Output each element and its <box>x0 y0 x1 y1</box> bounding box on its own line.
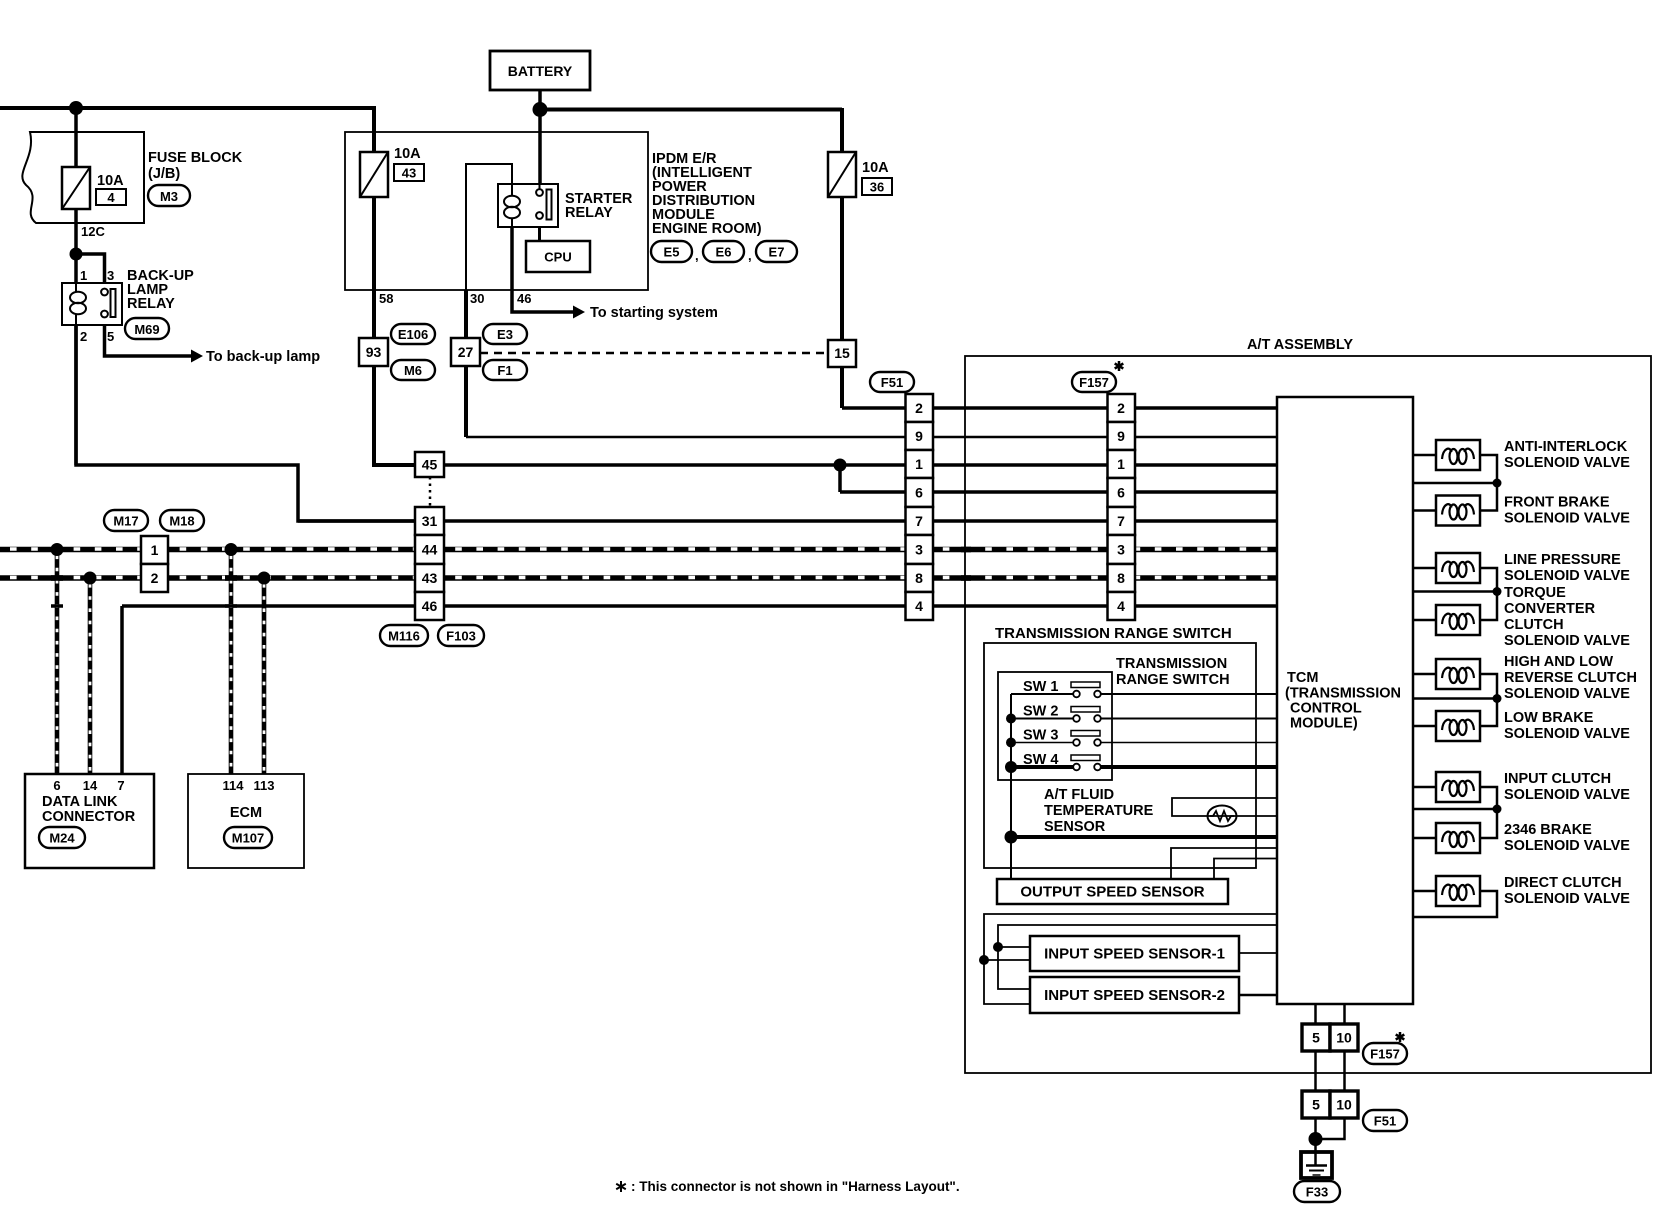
solenoid 3 line pressure <box>1436 553 1480 583</box>
svg-text:SENSOR: SENSOR <box>1044 819 1106 835</box>
svg-text:7: 7 <box>117 778 124 793</box>
svg-text:(J/B): (J/B) <box>148 166 180 182</box>
svg-text:10A: 10A <box>862 160 889 176</box>
wire row 4 drop to DLC pin 7 <box>120 606 124 774</box>
svg-text:8: 8 <box>1117 570 1125 586</box>
connector E6 <box>703 241 744 262</box>
svg-text:3: 3 <box>915 542 923 558</box>
SW4 switch <box>1071 755 1100 761</box>
value box 43 <box>394 164 424 181</box>
fuse 36 <box>828 152 856 197</box>
A/T ASSEMBLY outer box <box>965 356 1651 1073</box>
wire row 4 horizontal <box>122 604 1277 608</box>
connector cells 1/2 at M17 M18 <box>141 536 168 564</box>
connector 5/10 F157 bottom <box>1302 1024 1330 1051</box>
svg-text:10A: 10A <box>394 146 421 162</box>
F157 connector strip <box>1108 394 1136 422</box>
svg-text:TEMPERATURE: TEMPERATURE <box>1044 803 1154 819</box>
svg-text:SOLENOID VALVE: SOLENOID VALVE <box>1504 568 1630 584</box>
svg-text:7: 7 <box>915 513 923 529</box>
svg-text:TRANSMISSION RANGE SWITCH: TRANSMISSION RANGE SWITCH <box>995 625 1232 642</box>
SW1 switch <box>1071 682 1100 688</box>
wire backup relay pin5 to back-up lamp arrow <box>105 317 192 356</box>
connector box 93 <box>359 338 388 366</box>
svg-text:CPU: CPU <box>544 250 571 265</box>
wire IPDM pin30 via connector 27 to row 9 <box>466 164 512 292</box>
wire IPDM pin46 to starting system <box>512 227 573 312</box>
wire F157 to F51 pin5 <box>1314 1051 1317 1091</box>
svg-text:58: 58 <box>379 291 393 306</box>
node ISS supply B <box>993 942 1003 952</box>
solenoid 1 anti-interlock <box>1436 440 1480 470</box>
svg-text:2346 BRAKE: 2346 BRAKE <box>1504 822 1592 838</box>
connector M3 <box>148 185 190 206</box>
svg-text:CONVERTER: CONVERTER <box>1504 601 1596 617</box>
connector E7 <box>756 241 797 262</box>
ECM box M107 <box>188 774 304 868</box>
svg-text:44: 44 <box>422 542 438 558</box>
svg-text:5: 5 <box>1312 1097 1320 1113</box>
svg-text:31: 31 <box>422 513 438 529</box>
wire sensor ground common thick <box>1011 835 1277 839</box>
svg-text:A/T ASSEMBLY: A/T ASSEMBLY <box>1247 337 1353 353</box>
DLC box M24 <box>25 774 154 868</box>
SW3 switch <box>1071 731 1100 737</box>
dashed line connector 27 to connector 15 <box>480 352 828 355</box>
svg-text:F157: F157 <box>1079 375 1109 390</box>
svg-text:SW 4: SW 4 <box>1023 752 1058 768</box>
wire TCM pin5 down <box>1314 1004 1317 1024</box>
F51 connector strip <box>906 394 934 422</box>
node fuse4 output <box>70 248 83 261</box>
node ground join <box>1309 1132 1323 1146</box>
node CAN H DLC <box>84 572 97 585</box>
svg-text:F157: F157 <box>1370 1047 1400 1062</box>
wire solenoid 6 left <box>1413 725 1436 728</box>
connector box 31 <box>415 507 444 535</box>
svg-text:5: 5 <box>1312 1030 1320 1046</box>
connector E106 <box>391 324 435 344</box>
svg-text:ANTI-INTERLOCK: ANTI-INTERLOCK <box>1504 439 1628 455</box>
svg-text:M116: M116 <box>388 629 420 644</box>
arrowhead to starting system <box>573 306 585 319</box>
wire SW1 left <box>1011 693 1073 695</box>
output speed sensor box <box>997 879 1228 904</box>
wire input speed sensors supply A <box>984 914 1277 1004</box>
node ISS supply A <box>979 955 989 965</box>
svg-text:M17: M17 <box>113 514 138 529</box>
solenoid 5 high and low reverse clutch <box>1436 659 1480 689</box>
wire F157 to F51 pin10 <box>1343 1051 1346 1091</box>
svg-text:SW 1: SW 1 <box>1023 679 1058 695</box>
svg-text:M24: M24 <box>49 831 75 846</box>
svg-text:E7: E7 <box>769 245 785 260</box>
svg-text:REVERSE CLUTCH: REVERSE CLUTCH <box>1504 670 1637 686</box>
svg-text:CONTROL: CONTROL <box>1290 701 1362 717</box>
TCM box <box>1277 397 1413 1004</box>
node SW2 common <box>1006 714 1016 724</box>
wire SW2 left <box>1011 718 1073 720</box>
svg-text:: This connector is not shown: : This connector is not shown in "Harnes… <box>631 1179 960 1194</box>
connector M17 <box>104 510 148 531</box>
svg-text:CONNECTOR: CONNECTOR <box>42 809 136 825</box>
wire backup relay pin2 to row 1 to row 7 <box>76 325 415 521</box>
wire row 2 horizontal <box>842 406 1277 410</box>
connector box 45 <box>415 452 444 477</box>
svg-text:SW 2: SW 2 <box>1023 704 1058 720</box>
wire output speed sensor signal 1 <box>1171 848 1277 879</box>
connector M18 <box>160 510 204 531</box>
ground F33 <box>1301 1152 1332 1178</box>
svg-text:E3: E3 <box>497 327 513 342</box>
svg-text:INPUT CLUTCH: INPUT CLUTCH <box>1504 771 1611 787</box>
value box 36 <box>862 178 892 195</box>
transmission range switch inner box <box>998 672 1112 780</box>
svg-text:10: 10 <box>1336 1030 1352 1046</box>
svg-text:M107: M107 <box>232 831 265 846</box>
wire row 6 horizontal <box>840 490 1277 494</box>
svg-text:3: 3 <box>1117 542 1125 558</box>
wire backup relay pin3 <box>76 254 105 289</box>
battery box <box>490 51 590 90</box>
node sensor common <box>1005 831 1018 844</box>
wire SW4 to TCM <box>1101 765 1277 769</box>
solenoid 7 input clutch <box>1436 772 1480 802</box>
svg-text:36: 36 <box>870 180 884 195</box>
svg-text:8: 8 <box>915 570 923 586</box>
CPU box <box>526 241 590 272</box>
connector F157 top <box>1072 372 1116 392</box>
wire solenoid 5 right <box>1480 674 1497 726</box>
svg-text:SOLENOID VALVE: SOLENOID VALVE <box>1504 455 1630 471</box>
svg-text:45: 45 <box>422 457 438 473</box>
svg-text:F33: F33 <box>1306 1185 1328 1200</box>
svg-text:CLUTCH: CLUTCH <box>1504 617 1564 633</box>
connector box 15 <box>828 340 856 367</box>
wire solenoid pair3 common <box>1413 697 1497 700</box>
wire CAN L drop to DLC pin 6 <box>55 550 60 775</box>
A/T fluid temperature sensor thermistor <box>1208 806 1237 827</box>
wire row 3 dashed CAN bus <box>0 547 1277 553</box>
wire fuse36 vertical to connector 15 to row 2 <box>840 108 844 408</box>
svg-text:F51: F51 <box>1374 1114 1396 1129</box>
dotted link box45 to box31 <box>429 477 432 507</box>
svg-text:F51: F51 <box>881 375 903 390</box>
connector F157 bottom <box>1363 1043 1407 1064</box>
wire solenoid 8 left <box>1413 837 1436 840</box>
svg-text:LOW BRAKE: LOW BRAKE <box>1504 710 1594 726</box>
svg-text:SOLENOID VALVE: SOLENOID VALVE <box>1504 511 1630 527</box>
wire solenoid 9 left <box>1413 890 1436 893</box>
wire SW3 left <box>1011 742 1073 744</box>
node SW3 common <box>1006 738 1016 748</box>
svg-text:INPUT SPEED SENSOR-2: INPUT SPEED SENSOR-2 <box>1044 987 1225 1004</box>
svg-text:FRONT BRAKE: FRONT BRAKE <box>1504 495 1610 511</box>
connector F33 <box>1294 1181 1340 1202</box>
connector M6 <box>391 360 435 380</box>
svg-text:F103: F103 <box>446 629 476 644</box>
wire solenoid 4 left <box>1413 619 1436 622</box>
svg-text:ENGINE ROOM): ENGINE ROOM) <box>652 221 762 237</box>
wire F51 pin10 join <box>1318 1118 1345 1139</box>
node solenoid pair2 <box>1493 587 1502 596</box>
wire output speed sensor signal 2 <box>1214 859 1277 880</box>
svg-text:RANGE SWITCH: RANGE SWITCH <box>1116 672 1230 688</box>
connector E3 <box>483 324 527 344</box>
svg-text:SOLENOID VALVE: SOLENOID VALVE <box>1504 686 1630 702</box>
wire battery bus left segment <box>0 106 374 110</box>
wire solenoid 3 right <box>1480 568 1497 620</box>
svg-text:3: 3 <box>107 268 114 283</box>
wire solenoid pair2 common <box>1413 590 1497 593</box>
wire row 1 horizontal <box>444 463 1277 467</box>
fuse block J/B box with torn edge <box>22 132 144 223</box>
solenoid 6 low brake <box>1436 711 1480 741</box>
wire solenoid pair1 common <box>1413 482 1497 485</box>
svg-text:10: 10 <box>1336 1097 1352 1113</box>
svg-text:6: 6 <box>915 485 923 501</box>
connector box 27 <box>451 338 480 366</box>
svg-text:27: 27 <box>458 344 474 360</box>
svg-text:,: , <box>748 248 752 263</box>
svg-text:(TRANSMISSION: (TRANSMISSION <box>1285 686 1401 702</box>
svg-text:TRANSMISSION: TRANSMISSION <box>1116 656 1227 672</box>
wire fuse4 feed vertical <box>74 108 78 465</box>
svg-text:5: 5 <box>107 329 114 344</box>
SW2 switch <box>1071 707 1100 713</box>
node CAN L ECM <box>225 543 238 556</box>
connector M116 <box>380 625 428 646</box>
svg-text:SOLENOID VALVE: SOLENOID VALVE <box>1504 891 1630 907</box>
wire ISS-2 output to TCM <box>1239 994 1277 997</box>
transmission range switch outer box <box>984 643 1256 868</box>
wire SW3 to TCM <box>1101 742 1277 744</box>
wire crossing patches <box>51 575 63 581</box>
wire ISS-1 output to TCM <box>1239 952 1277 954</box>
connector 5/10 F51 bottom <box>1302 1091 1330 1118</box>
svg-text:30: 30 <box>470 291 484 306</box>
svg-text:To back-up lamp: To back-up lamp <box>206 349 320 365</box>
solenoid 4 torque converter clutch <box>1436 605 1480 635</box>
svg-text:OUTPUT SPEED SENSOR: OUTPUT SPEED SENSOR <box>1020 884 1204 901</box>
wire solenoid 1 left <box>1413 454 1436 457</box>
wire row 8 dashed CAN bus <box>0 575 1277 581</box>
solenoid 8 2346 brake <box>1436 823 1480 853</box>
wire solenoid 5 left <box>1413 673 1436 676</box>
svg-text:RELAY: RELAY <box>127 296 175 312</box>
starter relay <box>498 184 558 227</box>
connector M69 <box>125 318 169 339</box>
node SW4 common <box>1005 761 1017 773</box>
svg-text:10A: 10A <box>97 173 124 189</box>
svg-text:2: 2 <box>1117 400 1125 416</box>
svg-text:To starting system: To starting system <box>590 305 718 321</box>
svg-text:2: 2 <box>80 329 87 344</box>
wire TCM pin10 down <box>1343 1004 1346 1024</box>
node solenoid pair3 <box>1493 694 1502 703</box>
wire battery down to starter relay <box>538 90 542 192</box>
svg-text:114: 114 <box>223 778 245 793</box>
connector F1 <box>483 360 527 380</box>
wire switch common vertical <box>1010 694 1012 879</box>
svg-text:F1: F1 <box>497 363 512 378</box>
solenoid 9 direct clutch <box>1436 876 1480 906</box>
svg-text:M3: M3 <box>160 189 178 204</box>
svg-text:4: 4 <box>1117 598 1125 614</box>
svg-text:E5: E5 <box>664 245 680 260</box>
svg-text:93: 93 <box>366 344 382 360</box>
svg-text:E106: E106 <box>398 327 428 342</box>
svg-text:43: 43 <box>402 166 416 181</box>
connector box 44 <box>415 535 444 564</box>
svg-text:2: 2 <box>915 400 923 416</box>
node bus-fuse4 <box>69 101 83 115</box>
value box 4 <box>96 189 126 205</box>
svg-text:TCM: TCM <box>1287 670 1318 686</box>
wire F51 pin5 to ground <box>1314 1118 1317 1152</box>
svg-text:M6: M6 <box>404 363 422 378</box>
svg-text:HIGH AND LOW: HIGH AND LOW <box>1504 654 1613 670</box>
fuse 4 <box>62 167 90 209</box>
svg-text:INPUT SPEED SENSOR-1: INPUT SPEED SENSOR-1 <box>1044 946 1225 963</box>
node solenoid pair4 <box>1493 805 1502 814</box>
svg-text:46: 46 <box>517 291 531 306</box>
wire SW2 to TCM <box>1101 718 1277 720</box>
wire row 1 to row 6 drop <box>838 465 842 492</box>
svg-text:SOLENOID VALVE: SOLENOID VALVE <box>1504 633 1630 649</box>
svg-text:4: 4 <box>915 598 923 614</box>
svg-text:46: 46 <box>422 598 438 614</box>
svg-text:RELAY: RELAY <box>565 205 613 221</box>
wire row 9 horizontal <box>466 436 1277 439</box>
svg-text:15: 15 <box>834 345 850 361</box>
svg-text:ECM: ECM <box>230 805 262 821</box>
asterisk F157 bottom <box>1396 1032 1405 1042</box>
wire branch to ISS-1 <box>984 959 1030 961</box>
svg-text:1: 1 <box>80 268 87 283</box>
wire solenoid 7 right <box>1480 787 1497 838</box>
svg-text:7: 7 <box>1117 513 1125 529</box>
svg-text:9: 9 <box>915 428 923 444</box>
connector F51 top <box>870 372 914 392</box>
svg-text:113: 113 <box>254 778 275 793</box>
connector box 43 <box>415 564 444 592</box>
wire solenoid 3 left <box>1413 567 1436 570</box>
wire solenoid 7 left <box>1413 786 1436 789</box>
svg-text:M18: M18 <box>169 514 194 529</box>
connector M24 <box>39 827 85 848</box>
wire solenoid pair4 common <box>1413 808 1497 811</box>
wire CAN L drop to ECM pin 114 <box>229 550 234 775</box>
input speed sensor-2 box <box>1030 977 1239 1013</box>
svg-text:A/T FLUID: A/T FLUID <box>1044 787 1114 803</box>
solenoid 2 front brake <box>1436 496 1480 526</box>
svg-text:LINE PRESSURE: LINE PRESSURE <box>1504 552 1621 568</box>
wire IPDM pin58 fuse43 to connector 93 to box 45 <box>374 197 415 465</box>
svg-text:SOLENOID VALVE: SOLENOID VALVE <box>1504 838 1630 854</box>
connector box 46 <box>415 592 444 620</box>
wire bus to fuse43 <box>372 106 376 197</box>
connector E5 <box>651 241 692 262</box>
wire CAN H drop to ECM pin 113 <box>262 578 267 774</box>
svg-text:4: 4 <box>107 190 115 205</box>
svg-text:M69: M69 <box>134 322 159 337</box>
svg-text:DIRECT CLUTCH: DIRECT CLUTCH <box>1504 875 1622 891</box>
wire SW1 to TCM <box>1101 693 1277 695</box>
svg-text:12C: 12C <box>81 224 105 239</box>
wire row 7 horizontal <box>298 519 1277 523</box>
svg-text:DATA LINK: DATA LINK <box>42 794 118 810</box>
back-up lamp relay M69 <box>62 283 122 325</box>
wire starter relay contact to CPU <box>538 215 541 241</box>
svg-text:1: 1 <box>1117 456 1125 472</box>
arrowhead to back-up lamp <box>191 350 203 363</box>
wire SW4 left <box>1011 765 1073 769</box>
fuse 43 <box>360 152 388 197</box>
wire solenoid 2 left <box>1413 509 1436 512</box>
svg-text:9: 9 <box>1117 428 1125 444</box>
svg-text:43: 43 <box>422 570 438 586</box>
wire temp sensor loop <box>1172 798 1277 816</box>
wire solenoid 1 right <box>1480 455 1497 511</box>
svg-text:6: 6 <box>53 778 60 793</box>
wire battery bus right segment <box>540 108 842 112</box>
svg-text:E6: E6 <box>716 245 732 260</box>
svg-text:MODULE): MODULE) <box>1290 716 1358 732</box>
svg-text:SOLENOID VALVE: SOLENOID VALVE <box>1504 726 1630 742</box>
svg-text:2: 2 <box>151 570 159 586</box>
wire input speed sensors supply B <box>998 925 1277 989</box>
connector F103 <box>438 625 484 646</box>
svg-text:,: , <box>695 248 699 263</box>
asterisk F157 top <box>1115 361 1124 371</box>
footnote <box>616 1181 626 1192</box>
svg-text:6: 6 <box>1117 485 1125 501</box>
node row1 to row6 <box>834 459 847 472</box>
node CAN L DLC <box>51 543 64 556</box>
connector F51 bottom <box>1363 1110 1407 1131</box>
node CAN H ECM <box>258 572 271 585</box>
svg-text:1: 1 <box>915 456 923 472</box>
node solenoid pair1 <box>1493 479 1502 488</box>
svg-text:SOLENOID VALVE: SOLENOID VALVE <box>1504 787 1630 803</box>
svg-text:SW 3: SW 3 <box>1023 728 1058 744</box>
svg-text:BATTERY: BATTERY <box>508 63 573 79</box>
input speed sensor-1 box <box>1030 936 1239 971</box>
connector M107 <box>224 827 272 848</box>
wire branch to ISS-1 upper <box>998 946 1030 948</box>
wire CAN H drop to DLC pin 14 <box>88 578 93 774</box>
svg-text:FUSE BLOCK: FUSE BLOCK <box>148 150 243 166</box>
svg-text:14: 14 <box>83 778 98 793</box>
wire solenoid 9 return <box>1413 891 1497 917</box>
node battery tap <box>533 102 548 117</box>
svg-text:1: 1 <box>151 542 159 558</box>
IPDM E/R box <box>345 132 648 290</box>
svg-text:TORQUE: TORQUE <box>1504 585 1566 601</box>
